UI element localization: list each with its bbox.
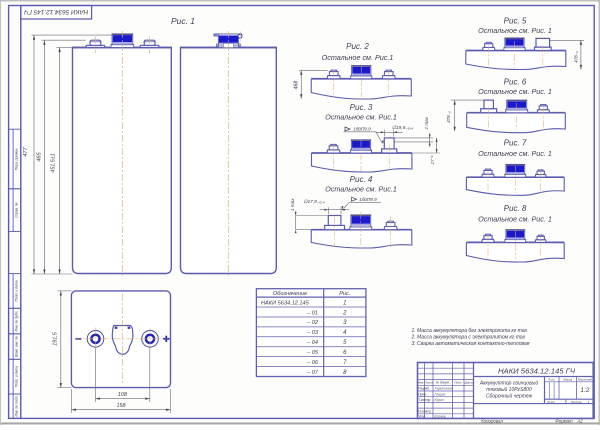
Fig.3 dimension 1 max: [394, 116, 433, 147]
svg-text:Инв. № дубл.: Инв. № дубл.: [14, 311, 18, 332]
centerline fig6 element 2: [516, 103, 518, 130]
centerline fig6 element 3: [542, 108, 544, 131]
svg-text:Дата: Дата: [464, 381, 473, 385]
Fig.3 left bolt: [327, 144, 340, 153]
svg-text:Лист: Лист: [546, 400, 555, 404]
top-left designation stamp: [21, 6, 92, 20]
Fig.5 battery slab: [466, 51, 566, 70]
svg-text:Пров.: Пров.: [418, 392, 427, 396]
centerline fig6 element 1: [488, 108, 490, 131]
dimension 451,5±1: [50, 48, 72, 275]
svg-text:191,5: 191,5: [53, 331, 59, 345]
positive terminal circle (top view): [142, 331, 159, 348]
parts table grid: [256, 289, 366, 377]
centerline fig4 element 3: [390, 217, 392, 248]
svg-text:тяговый 10PzS800: тяговый 10PzS800: [486, 386, 532, 393]
svg-text:Листов: Листов: [570, 400, 582, 404]
svg-text:Рис. 4: Рис. 4: [350, 175, 373, 184]
terminal bolt right (front view): [140, 40, 160, 47]
centerline fig7 element 3: [540, 171, 542, 194]
Fig.4 left post: [325, 216, 345, 230]
stamp box Podp. i data 2: [9, 359, 21, 394]
svg-text:Аккумулятор свинцовый: Аккумулятор свинцовый: [479, 379, 538, 386]
Fig.3 right post: [382, 138, 397, 153]
Fig.3 weld designation: [343, 127, 383, 145]
Fig.2 captions: [322, 42, 394, 62]
centerline top view horizontal: [75, 338, 168, 340]
svg-text:465: 465: [36, 151, 42, 161]
Fig.5 dimension 478: [550, 40, 584, 69]
stamp box Vzam. inv. No: [9, 334, 21, 360]
svg-text:108: 108: [118, 392, 127, 398]
svg-text:478₋₂: 478₋₂: [446, 111, 451, 123]
svg-text:1 max: 1 max: [290, 198, 295, 211]
svg-text:– 04: – 04: [306, 340, 318, 346]
Fig.3 vent cap: [350, 140, 371, 153]
centerline fig3 element 3: [388, 145, 390, 172]
svg-text:Справ. №: Справ. №: [14, 202, 18, 218]
title block signature rows: [418, 387, 453, 419]
svg-text:Копировал: Копировал: [481, 419, 503, 424]
svg-text:Подп. и дата: Подп. и дата: [14, 280, 18, 301]
svg-text:Остальное см. Рис.1: Остальное см. Рис.1: [322, 53, 394, 62]
svg-text:451,5±1: 451,5±1: [50, 153, 56, 172]
terminal bolt left (front view): [86, 40, 106, 47]
Fig.2 right bolt: [382, 70, 395, 79]
Fig.5 captions: [478, 16, 552, 35]
page edge right: [598, 0, 600, 425]
Fig.6 right bolt: [537, 105, 550, 113]
svg-text:– 06: – 06: [306, 360, 319, 366]
stamp box Perv. primen.: [9, 129, 21, 189]
centerline top view right terminal: [149, 328, 151, 351]
dimension 191,5: [53, 291, 72, 388]
svg-text:Елохов: Елохов: [435, 414, 447, 418]
table row 2: [306, 310, 347, 316]
centerline fig7 element 1: [487, 171, 489, 194]
dimension 108: [95, 348, 149, 403]
svg-text:– 05: – 05: [306, 350, 319, 356]
Fig.3 dimension 17: [412, 138, 440, 165]
svg-text:Остальное см. Рис. 1: Остальное см. Рис. 1: [478, 214, 552, 223]
svg-text:Остальное см. Рис.1: Остальное см. Рис.1: [325, 112, 397, 121]
svg-text:НАКИ 5634.12.145: НАКИ 5634.12.145: [261, 300, 310, 306]
Fig.4 captions: [325, 175, 397, 193]
centerline fig5 element 3: [542, 46, 544, 69]
svg-text:1: 1: [343, 300, 346, 306]
svg-text:Рис. 3: Рис. 3: [350, 103, 373, 112]
table row 7: [306, 360, 347, 366]
svg-text:Рис. 5: Рис. 5: [504, 16, 527, 25]
svg-text:Инв. № подл.: Инв. № подл.: [14, 395, 18, 416]
list row: [474, 399, 594, 404]
table header: [273, 291, 351, 297]
centerline top view vertical: [122, 294, 124, 385]
svg-text:Рис. 1: Рис. 1: [171, 16, 195, 26]
stamp box Sprav. No: [9, 189, 21, 232]
svg-text:1б0П9.9: 1б0П9.9: [353, 127, 371, 132]
svg-text:Подп.: Подп.: [454, 381, 462, 385]
Fig.8 captions: [478, 204, 552, 223]
centerline view2 body axis: [227, 31, 229, 277]
svg-text:Н.контр.: Н.контр.: [418, 409, 432, 413]
svg-text:Разраб.: Разраб.: [418, 387, 430, 391]
svg-text:№ докум.: № докум.: [436, 381, 450, 385]
svg-text:∅19,5₋₀,₄: ∅19,5₋₀,₄: [392, 125, 413, 131]
centerline fig2 element 2: [360, 66, 362, 97]
title block outer: [418, 363, 594, 419]
svg-text:Глазин: Глазин: [435, 392, 446, 396]
svg-text:Масштаб: Масштаб: [578, 378, 592, 382]
svg-text:НАКИ 5634.12.145 ГЧ: НАКИ 5634.12.145 ГЧ: [498, 367, 576, 376]
centerline fig5 element 2: [514, 41, 516, 68]
Fig.2 left bolt: [327, 70, 340, 79]
svg-text:Остальное см. Рис. 1: Остальное см. Рис. 1: [478, 87, 552, 96]
stamp box Podp. i data 1: [9, 274, 21, 309]
svg-text:Юрин: Юрин: [435, 398, 444, 402]
page edge top: [0, 0, 600, 2]
centerline view1 cap axis: [121, 31, 123, 277]
Fig.4 vent cap: [350, 215, 372, 230]
svg-text:А2: А2: [576, 419, 583, 424]
centerline fig3 element 1: [333, 145, 335, 172]
Fig.1 caption: [171, 16, 195, 26]
table row 8: [306, 370, 347, 376]
svg-text:1. Масса аккумулятора без элек: 1. Масса аккумулятора без электролита кг…: [412, 328, 528, 334]
Fig.4 weld designation: [342, 197, 381, 210]
Fig.8 right bolt: [535, 235, 546, 242]
Fig.3 captions: [325, 103, 397, 121]
table row 6: [306, 350, 347, 356]
svg-text:– 03: – 03: [306, 330, 319, 336]
Fig.2 battery slab: [311, 79, 411, 99]
centerline view1 right terminal: [149, 37, 151, 54]
designation cell: [474, 367, 594, 377]
plus polarity mark: [163, 336, 169, 342]
svg-text:НАКИ 5634.12.145 ГЧ: НАКИ 5634.12.145 ГЧ: [23, 8, 88, 15]
svg-text:Сборочный чертеж: Сборочный чертеж: [486, 392, 533, 399]
svg-text:Остальное см. Рис.1: Остальное см. Рис.1: [325, 184, 397, 193]
minus polarity mark: [76, 338, 82, 340]
table row 3: [306, 320, 347, 326]
dimension 477: [23, 35, 112, 274]
battery body side view: [181, 48, 277, 274]
svg-text:Остальное см. Рис. 1: Остальное см. Рис. 1: [478, 26, 552, 35]
Fig.6 left post: [481, 100, 497, 113]
stamp box Inv. No dubl.: [9, 308, 21, 334]
svg-text:∅17,9₋₀,₄: ∅17,9₋₀,₄: [303, 199, 324, 205]
svg-text:477: 477: [23, 146, 29, 156]
table row 4: [306, 330, 347, 336]
svg-text:– 02: – 02: [306, 320, 319, 326]
Fig.5 vent cap: [504, 38, 525, 51]
technical notes: [411, 328, 530, 347]
svg-text:2: 2: [342, 310, 347, 316]
svg-text:1б0П9.9: 1б0П9.9: [359, 197, 377, 202]
svg-text:Рис.: Рис.: [339, 291, 350, 297]
lit massa masshtab section: [545, 377, 594, 400]
Fig.2 vent cap: [351, 66, 372, 79]
Fig.4 battery slab: [311, 230, 412, 248]
svg-text:Обозначение: Обозначение: [273, 291, 307, 297]
svg-text:Изм.: Изм.: [418, 381, 425, 385]
battery top view outline: [71, 291, 170, 388]
Fig.8 vent cap: [505, 230, 526, 243]
Fig.6 battery slab: [467, 113, 566, 133]
Fig.7 right bolt: [535, 170, 546, 177]
name cell: [479, 377, 545, 404]
table row 1: [261, 300, 346, 306]
Fig.5 left bolt: [482, 42, 495, 50]
centerline fig8 element 2: [514, 231, 516, 259]
Fig.8 left bolt: [482, 234, 495, 242]
svg-text:158: 158: [117, 403, 126, 409]
bottom extension line of height dims: [32, 273, 73, 275]
centerline fig5 element 1: [488, 46, 490, 69]
svg-text:Лист: Лист: [424, 381, 433, 385]
Fig.4 diameter 17,9 label: [303, 199, 349, 214]
left stamp column divider: [12, 129, 14, 418]
Fig.6 captions: [478, 77, 552, 96]
svg-text:Утв.: Утв.: [418, 414, 425, 418]
Fig.8 battery slab: [466, 242, 564, 262]
Fig.3 battery slab: [312, 153, 412, 172]
centerline fig3 element 2: [360, 140, 362, 171]
battery body front view: [73, 48, 172, 274]
centerline fig2 element 3: [388, 71, 390, 98]
centerline fig2 element 1: [333, 71, 335, 98]
svg-text:1 max: 1 max: [424, 116, 429, 129]
svg-text:17⁺¹: 17⁺¹: [430, 155, 435, 165]
centerline fig7 element 2: [514, 166, 516, 193]
Fig.7 captions: [478, 138, 552, 158]
svg-text:Рис. 7: Рис. 7: [504, 138, 527, 147]
svg-text:Подп. и дата: Подп. и дата: [14, 366, 18, 387]
svg-text:Взам. инв. №: Взам. инв. №: [14, 336, 18, 357]
stamp box Inv. No podl.: [9, 394, 21, 418]
frame inner left line: [20, 6, 22, 419]
table row 5: [306, 340, 347, 346]
svg-text:Лит.: Лит.: [547, 378, 555, 382]
centerline fig4 element 2: [360, 212, 362, 247]
svg-text:468: 468: [294, 81, 300, 90]
centerline fig8 element 1: [487, 236, 489, 260]
svg-text:478₋₂: 478₋₂: [574, 51, 579, 63]
negative terminal circle (top view): [87, 331, 104, 348]
title block left section grid: [418, 363, 474, 419]
Fig.7 left bolt: [482, 169, 495, 177]
vent opening outline (top view): [112, 326, 133, 355]
svg-text:– 07: – 07: [306, 370, 319, 376]
svg-text:1:2: 1:2: [580, 387, 589, 394]
svg-text:2. Масса аккумулятора с электр: 2. Масса аккумулятора с электролитом кг …: [411, 335, 526, 341]
Fig.3 diameter 19,5 label: [376, 125, 414, 136]
svg-text:Рис. 2: Рис. 2: [346, 42, 369, 51]
Fig.6 dimension 478: [446, 100, 484, 131]
Fig.4 right bolt: [384, 221, 397, 230]
centerline fig4 element 1: [334, 217, 336, 248]
page edge bottom: [0, 423, 600, 424]
vent cap front view: [111, 34, 134, 48]
Fig.2 dimension 468: [294, 70, 328, 98]
svg-text:Рис. 8: Рис. 8: [504, 204, 527, 213]
Fig.6 vent cap: [506, 100, 528, 113]
centerline view1 left terminal: [94, 37, 96, 54]
page edge left: [0, 0, 2, 425]
svg-text:Харитонов: Харитонов: [434, 387, 453, 391]
Fig.7 vent cap: [505, 164, 526, 177]
svg-text:Перв. примен.: Перв. примен.: [14, 148, 18, 171]
dimension 158: [71, 389, 170, 413]
bottom margin labels: [481, 419, 583, 424]
Fig.4 dimension 1 max: [290, 198, 328, 233]
centerline top view left terminal: [95, 328, 97, 351]
Fig.5 right post: [535, 38, 552, 50]
svg-text:– 01: – 01: [306, 310, 318, 316]
svg-text:Масса: Масса: [563, 378, 572, 382]
svg-text:Формат: Формат: [555, 419, 573, 424]
svg-text:Остальное см. Рис. 1: Остальное см. Рис. 1: [478, 149, 552, 158]
Fig.7 battery slab: [466, 177, 564, 195]
svg-text:Т.контр.: Т.контр.: [418, 398, 431, 402]
centerline fig8 element 3: [540, 236, 542, 260]
title block header labels: [418, 381, 473, 385]
svg-text:3. Сварка автоматическая конта: 3. Сварка автоматическая контактно-тепло…: [412, 341, 530, 347]
svg-text:Рис. 6: Рис. 6: [504, 77, 527, 86]
dimension 465: [36, 40, 86, 274]
centerline view2 cap detail: [240, 32, 242, 42]
vent cap side view: [214, 34, 242, 48]
